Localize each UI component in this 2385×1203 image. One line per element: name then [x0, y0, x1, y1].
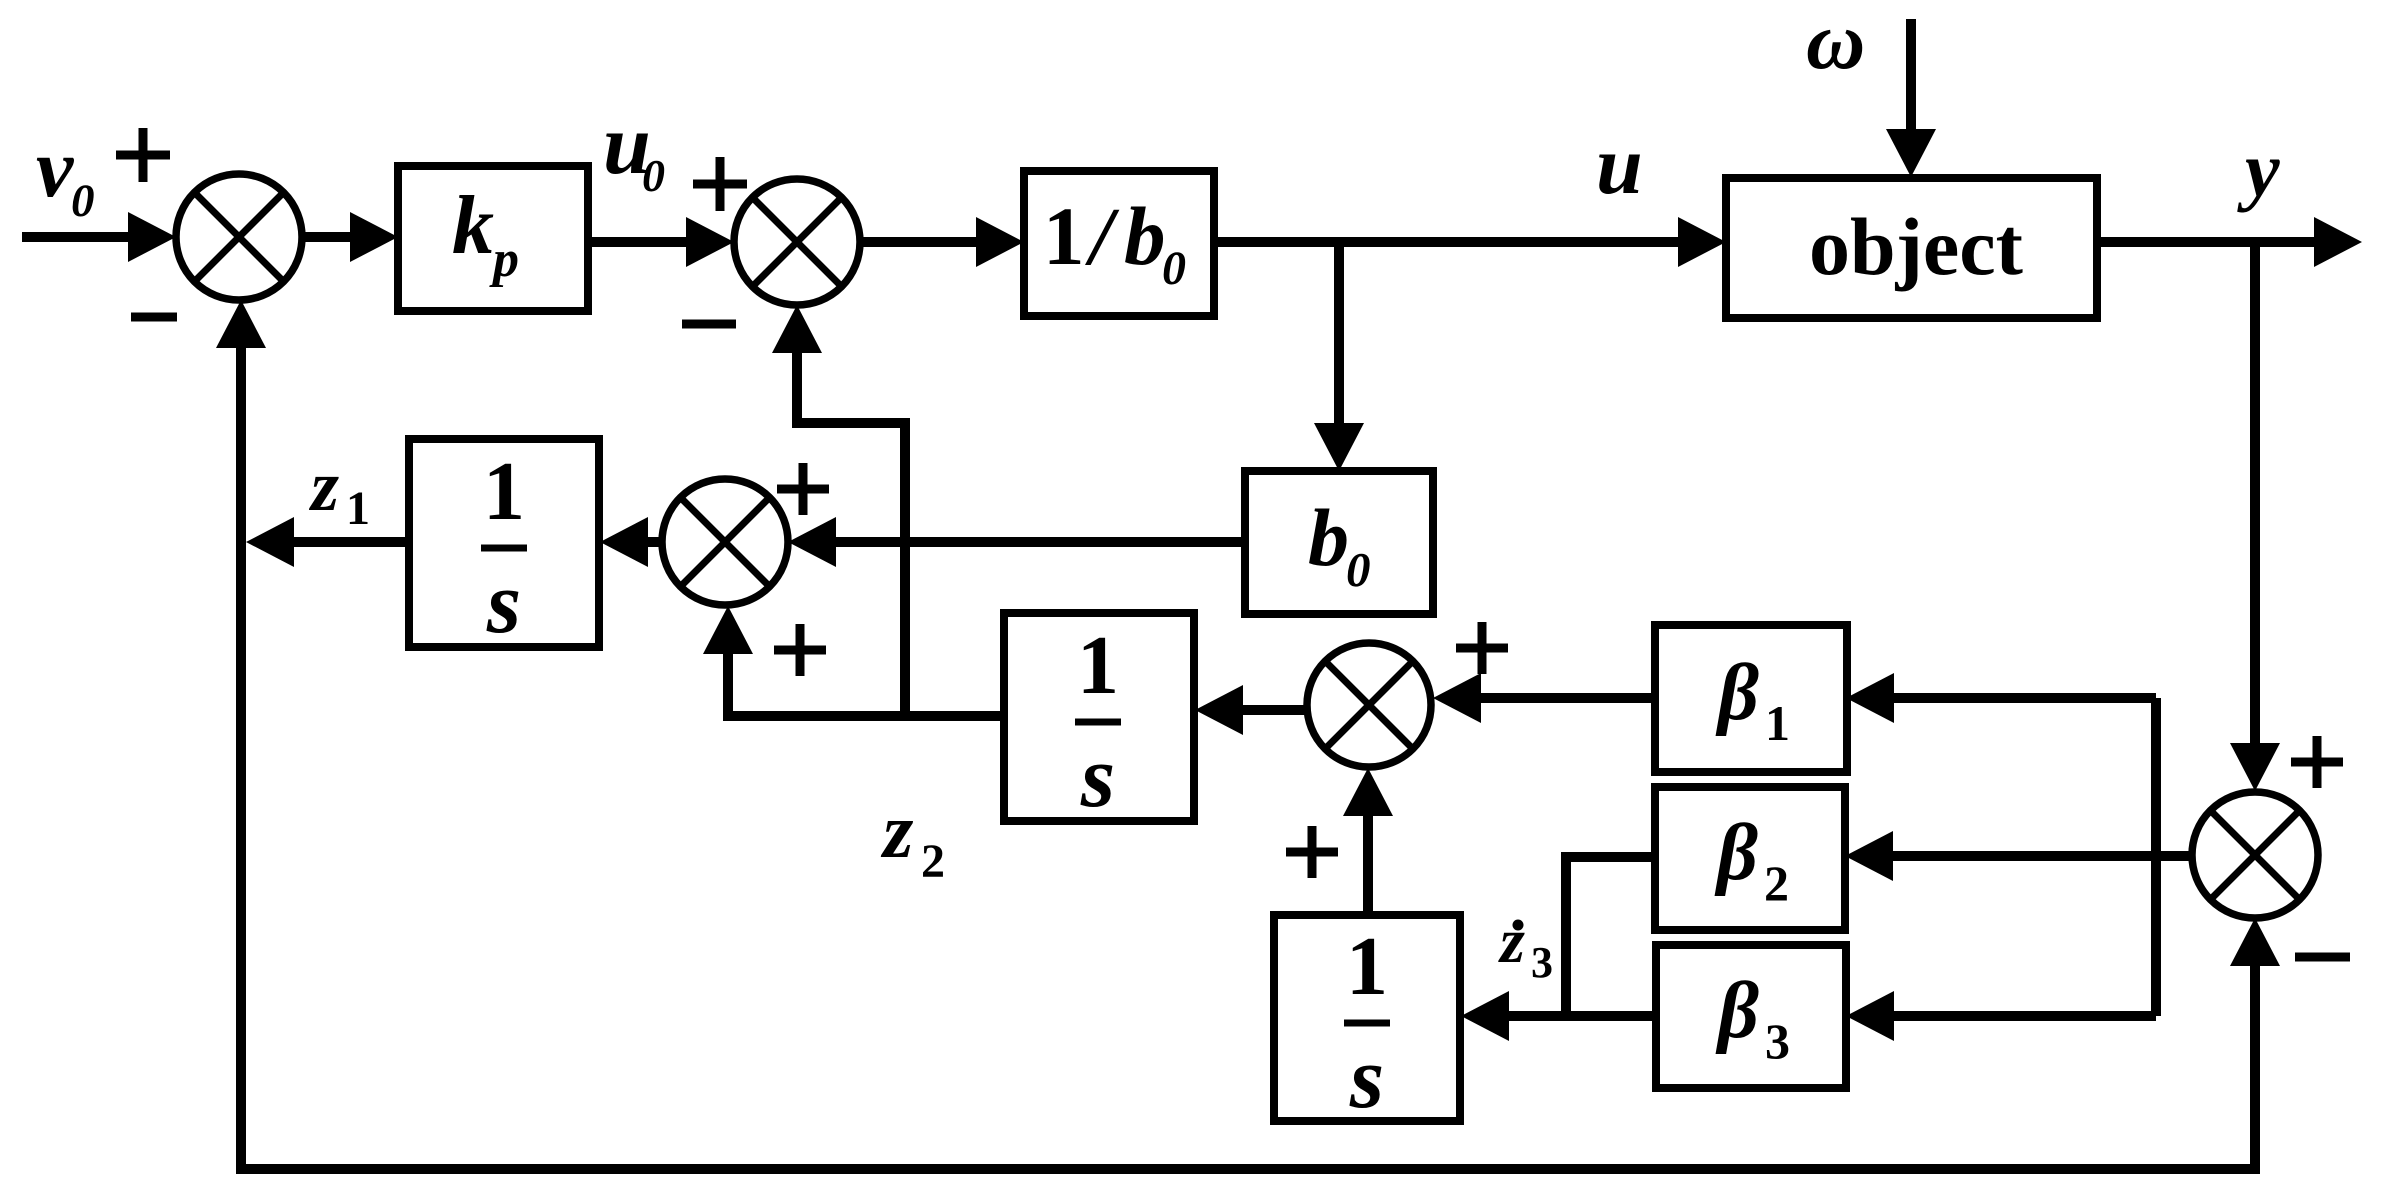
svg-text:1: 1 [1765, 695, 1790, 751]
svg-text:z: z [308, 446, 339, 526]
svg-text:2: 2 [921, 835, 945, 888]
svg-text:0: 0 [642, 150, 665, 201]
svg-text:u: u [1596, 119, 1643, 212]
svg-text:2: 2 [1764, 855, 1789, 911]
svg-text:k: k [452, 179, 494, 272]
svg-text:1: 1 [1077, 619, 1119, 712]
svg-text:ω: ω [1806, 0, 1865, 86]
svg-text:b: b [1124, 190, 1166, 282]
svg-text:1: 1 [483, 445, 525, 538]
svg-text:0: 0 [1162, 242, 1186, 295]
svg-text:β: β [1714, 809, 1758, 897]
svg-text:object: object [1809, 201, 2023, 292]
svg-text:s: s [486, 555, 521, 652]
svg-text:s: s [1080, 729, 1115, 826]
svg-text:z: z [1498, 905, 1525, 976]
svg-text:s: s [1349, 1030, 1384, 1127]
svg-text:3: 3 [1531, 938, 1553, 987]
svg-text:v: v [36, 122, 75, 215]
svg-text:3: 3 [1765, 1013, 1790, 1069]
svg-text:β: β [1715, 967, 1759, 1055]
svg-text:b: b [1308, 492, 1349, 583]
svg-text:p: p [489, 231, 519, 288]
svg-text:1: 1 [1043, 190, 1085, 282]
svg-text:z: z [880, 787, 914, 874]
svg-text:0: 0 [1346, 542, 1371, 597]
svg-text:1: 1 [346, 482, 370, 535]
svg-text:1: 1 [1346, 920, 1388, 1013]
svg-text:β: β [1715, 649, 1759, 737]
svg-text:0: 0 [71, 175, 95, 227]
